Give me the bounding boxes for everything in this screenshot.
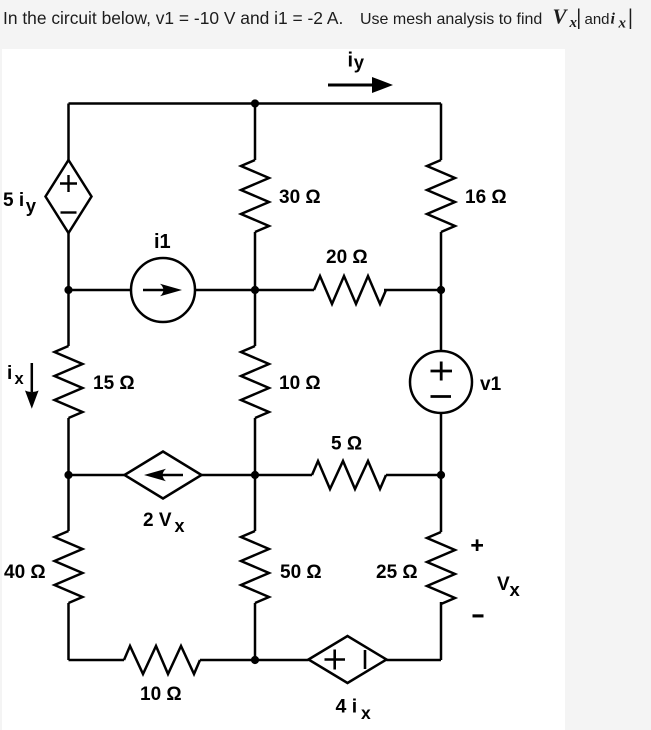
svg-text:x: x [618, 16, 627, 32]
svg-text:5 Ω: 5 Ω [331, 434, 362, 455]
svg-text:5 i: 5 i [3, 190, 24, 211]
svg-text:10 Ω: 10 Ω [279, 373, 321, 394]
svg-text:50 Ω: 50 Ω [280, 562, 322, 583]
svg-text:V: V [553, 5, 569, 29]
svg-text:2 V: 2 V [143, 510, 172, 531]
svg-text:In the circuit below, v1 = -10: In the circuit below, v1 = -10 V and i1 … [3, 8, 343, 28]
svg-text:V: V [497, 574, 510, 595]
svg-text:y: y [354, 52, 365, 73]
svg-text:30 Ω: 30 Ω [279, 187, 321, 208]
svg-text:10 Ω: 10 Ω [140, 684, 182, 705]
svg-text:Use mesh analysis to find: Use mesh analysis to find [360, 11, 542, 28]
svg-text:15 Ω: 15 Ω [93, 373, 135, 394]
svg-text:i: i [348, 49, 354, 71]
svg-text:20 Ω: 20 Ω [326, 247, 368, 268]
svg-text:i: i [7, 363, 12, 384]
svg-text:16 Ω: 16 Ω [465, 187, 507, 208]
svg-text:25 Ω: 25 Ω [376, 562, 418, 583]
svg-text:x: x [175, 516, 185, 536]
svg-text:40 Ω: 40 Ω [4, 562, 46, 583]
svg-text:x: x [361, 703, 371, 723]
svg-text:i: i [611, 11, 616, 28]
svg-text:4 i: 4 i [336, 696, 358, 718]
svg-text:x: x [510, 579, 521, 600]
svg-text:x: x [569, 15, 578, 31]
svg-text:v1: v1 [480, 374, 502, 395]
svg-text:y: y [26, 195, 37, 216]
svg-text:i1: i1 [154, 231, 171, 253]
svg-text:and: and [585, 11, 610, 28]
svg-text:x: x [15, 370, 25, 388]
